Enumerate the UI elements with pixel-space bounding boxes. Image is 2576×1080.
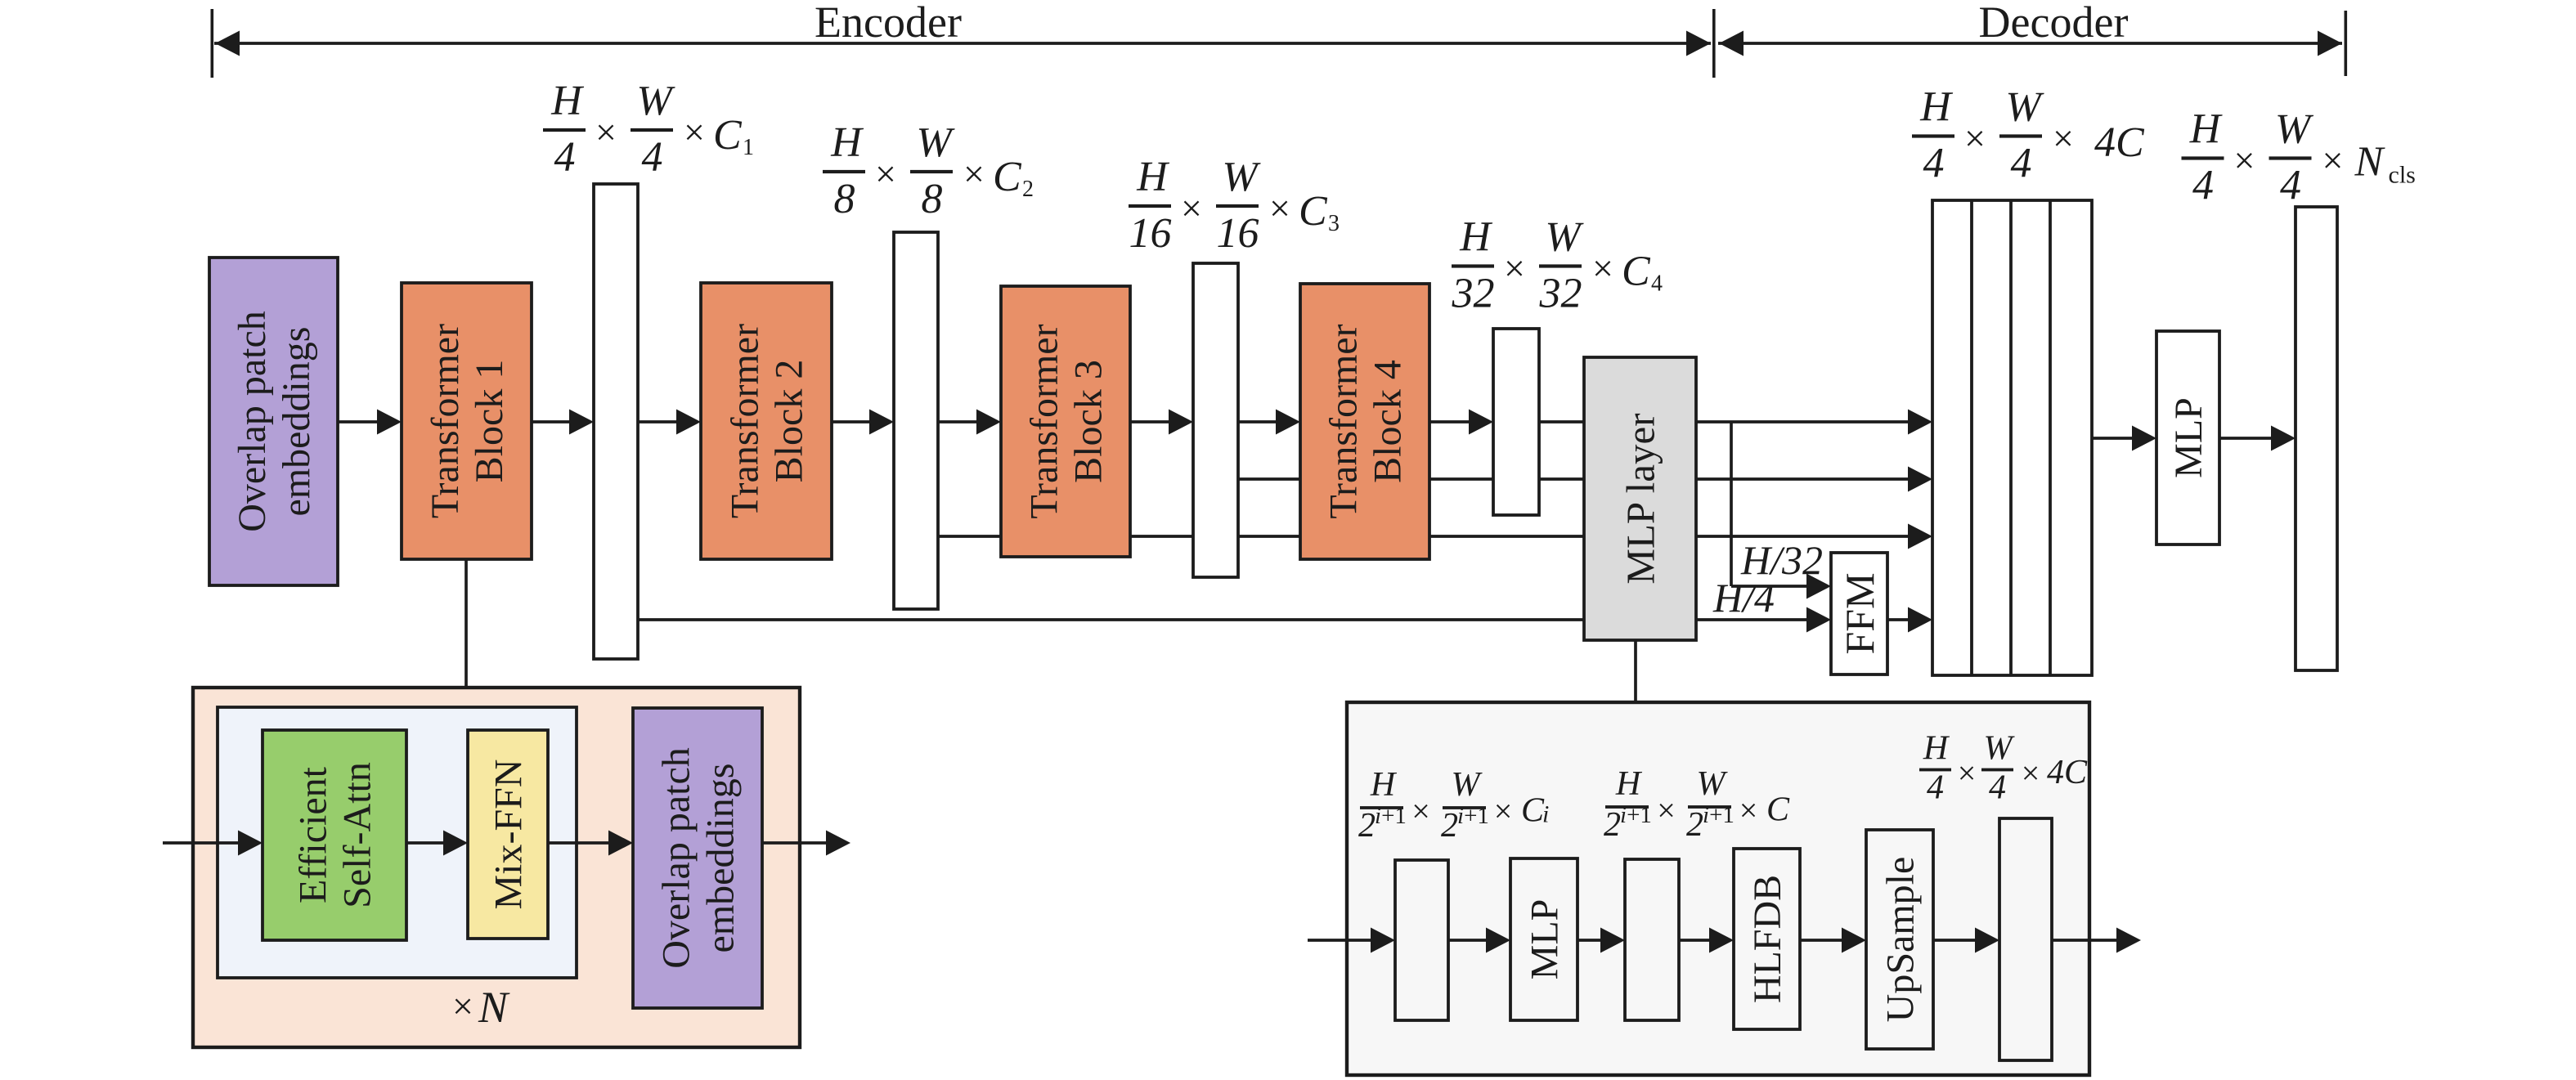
svg-text:W: W	[1222, 154, 1261, 200]
svg-text:H: H	[1923, 730, 1950, 768]
transformer block detail outer box	[193, 688, 800, 1047]
svg-text:H: H	[2189, 106, 2223, 153]
svg-text:2: 2	[1358, 807, 1376, 845]
svg-text:4: 4	[1651, 271, 1663, 297]
svg-text:Block 2: Block 2	[768, 360, 811, 483]
arrow MLP layer out3 to decoder stack	[1696, 524, 1932, 549]
box Overlap patch embeddings (detail)	[633, 708, 762, 1008]
svg-text:4: 4	[2280, 163, 2301, 209]
svg-text:×: ×	[1964, 118, 1986, 159]
arrow MLP to output slab	[2219, 426, 2296, 451]
svg-text:8: 8	[834, 176, 855, 222]
svg-text:H/4: H/4	[1712, 575, 1775, 621]
box Efficient Self-Attn	[263, 730, 406, 940]
arrow Block1 to feature slab1	[532, 410, 594, 435]
box Transformer Block 2	[701, 283, 832, 559]
svg-text:embeddings: embeddings	[275, 327, 318, 517]
svg-text:C: C	[1299, 188, 1328, 235]
svg-text:×: ×	[1739, 792, 1758, 829]
svg-text:H: H	[1370, 766, 1398, 804]
svg-text:N: N	[478, 983, 510, 1032]
svg-text:H: H	[1615, 765, 1643, 803]
svg-text:UpSample: UpSample	[1879, 857, 1923, 1023]
svg-text:1: 1	[743, 135, 754, 160]
feature slab 3	[1193, 263, 1238, 577]
feature slab 4	[1493, 329, 1539, 515]
arrow Mix-FFN to overlap patch embeddings	[548, 831, 633, 856]
svg-text:×: ×	[1181, 187, 1202, 229]
svg-text:×: ×	[684, 111, 705, 153]
svg-text:×: ×	[1504, 248, 1525, 289]
svg-text:W: W	[1452, 766, 1483, 804]
decoder span double arrow with end tick	[1718, 11, 2347, 76]
svg-text:W: W	[1697, 765, 1729, 803]
wire slab3 skip to MLP layer	[1238, 477, 1584, 481]
feature slab 1	[594, 184, 638, 659]
svg-text:×: ×	[452, 985, 473, 1027]
wire MLP layer down to MLP-layer detail	[1634, 640, 1637, 704]
wire Block1 down to transformer-block detail	[464, 559, 468, 689]
svg-text:Transformer: Transformer	[724, 324, 767, 518]
arrow decoder stack to MLP	[2092, 426, 2156, 451]
arrow MLP layer out1 to decoder stack	[1696, 410, 1932, 435]
arrow Self-Attn to Mix-FFN	[406, 831, 468, 856]
arrow out of transformer block detail	[762, 831, 850, 856]
svg-text:MLP: MLP	[2167, 397, 2210, 478]
arrow FFM to decoder stack	[1887, 607, 1932, 633]
arrow Block3 to feature slab3	[1130, 410, 1193, 435]
svg-text:×: ×	[595, 111, 617, 153]
svg-text:MLP: MLP	[1524, 899, 1567, 980]
svg-text:2: 2	[1686, 806, 1703, 844]
wire slab1 H/4 skip to MLP layer	[638, 618, 1584, 621]
svg-text:Transformer: Transformer	[424, 324, 467, 518]
svg-text:H: H	[1919, 84, 1953, 131]
svg-text:W: W	[636, 78, 675, 124]
svg-text:MLP layer: MLP layer	[1618, 413, 1663, 584]
svg-text:2: 2	[1604, 806, 1621, 844]
arrow out of MLP-layer detail	[2052, 928, 2141, 953]
svg-text:H: H	[830, 119, 864, 166]
svg-text:×: ×	[2022, 755, 2040, 791]
svg-text:Block 4: Block 4	[1367, 360, 1410, 483]
svg-text:4: 4	[2011, 141, 2032, 187]
svg-text:C: C	[1622, 249, 1651, 295]
svg-text:4: 4	[1927, 769, 1944, 807]
svg-text:×: ×	[1657, 792, 1676, 829]
svg-text:32: 32	[1539, 271, 1582, 317]
wire slab2 skip to MLP layer	[938, 535, 1584, 538]
svg-text:W: W	[2005, 84, 2044, 131]
svg-text:W: W	[916, 119, 955, 166]
svg-text:i+1: i+1	[1457, 803, 1489, 829]
svg-text:Decoder: Decoder	[1979, 0, 2129, 47]
encoder span double arrow with end ticks	[211, 9, 1716, 78]
svg-text:i+1: i+1	[1703, 802, 1735, 828]
MLP layer detail outer box	[1347, 702, 2089, 1075]
box decoder MLP	[2156, 331, 2219, 544]
svg-text:C: C	[1766, 791, 1790, 829]
svg-text:×: ×	[1269, 187, 1290, 229]
svg-text:W: W	[1545, 214, 1584, 261]
svg-text:×: ×	[1592, 248, 1613, 289]
svg-text:×: ×	[963, 153, 985, 195]
svg-text:4: 4	[642, 134, 663, 181]
box HLFDB	[1734, 849, 1800, 1029]
svg-text:C: C	[1521, 792, 1545, 830]
svg-text:4C: 4C	[2094, 119, 2145, 166]
arrow MLP to slabB	[1577, 928, 1625, 953]
svg-text:×: ×	[2322, 140, 2344, 181]
svg-text:4: 4	[554, 134, 576, 181]
arrow MLP layer out2 to decoder stack	[1696, 467, 1932, 492]
arrow slabA to MLP	[1448, 928, 1510, 953]
box Overlap patch embeddings	[209, 258, 338, 585]
svg-text:cls: cls	[2389, 162, 2416, 189]
svg-text:Overlap patch: Overlap patch	[231, 311, 274, 532]
detail slab C	[1999, 818, 2052, 1060]
arrow into MLP-layer detail	[1308, 928, 1395, 953]
svg-text:i: i	[1542, 801, 1549, 828]
svg-text:i+1: i+1	[1620, 802, 1652, 828]
box Mix-FFN	[468, 730, 548, 939]
svg-text:16: 16	[1217, 210, 1259, 257]
arrow HLFDB to UpSample	[1800, 928, 1866, 953]
svg-text:W: W	[2275, 106, 2314, 153]
svg-text:4C: 4C	[2047, 754, 2088, 791]
svg-text:H: H	[1459, 214, 1492, 261]
svg-text:Transformer: Transformer	[1023, 324, 1066, 518]
box Transformer Block 4	[1300, 284, 1429, 559]
box Transformer Block 3	[1001, 286, 1130, 557]
detail slab B	[1625, 859, 1679, 1020]
svg-text:W: W	[1984, 730, 2016, 768]
arrow H/4 into FFM	[1696, 607, 1831, 633]
svg-text:Transformer: Transformer	[1322, 324, 1366, 518]
svg-text:embeddings: embeddings	[699, 764, 743, 953]
svg-text:i+1: i+1	[1375, 803, 1407, 829]
arrow slab3 to Block4	[1238, 410, 1300, 435]
svg-text:Mix-FFN: Mix-FFN	[487, 759, 531, 909]
svg-text:8: 8	[922, 176, 943, 222]
svg-text:×: ×	[2053, 118, 2074, 159]
svg-text:3: 3	[1328, 211, 1340, 236]
arrow slab1 to Block2	[638, 410, 701, 435]
svg-text:16: 16	[1129, 210, 1172, 257]
svg-text:4: 4	[1923, 141, 1945, 187]
svg-text:Block 3: Block 3	[1067, 360, 1111, 483]
svg-text:×: ×	[2234, 140, 2255, 181]
wire H/32 branch down	[1730, 422, 1733, 586]
arrow slab2 to Block3	[938, 410, 1001, 435]
svg-text:H: H	[1136, 154, 1169, 200]
svg-text:FFM: FFM	[1837, 572, 1883, 654]
arrow Block2 to feature slab2	[832, 410, 894, 435]
transformer block detail inner box	[218, 707, 577, 978]
arrow UpSample to slabC	[1933, 928, 1999, 953]
arrow H/32 into FFM	[1731, 574, 1831, 599]
svg-text:H: H	[550, 78, 584, 124]
svg-text:×: ×	[875, 153, 896, 195]
output slab	[2296, 207, 2337, 670]
arrow into Efficient Self-Attn	[163, 831, 263, 856]
detail slab A	[1395, 860, 1448, 1020]
svg-text:2: 2	[1022, 177, 1034, 202]
decoder concatenated slabs	[1932, 200, 2092, 675]
svg-text:32: 32	[1452, 271, 1495, 317]
box FFM	[1831, 553, 1887, 674]
svg-text:×: ×	[1958, 755, 1977, 791]
svg-text:×: ×	[1411, 793, 1430, 830]
box Transformer Block 1	[402, 283, 532, 559]
wire slab4 to MLP layer	[1539, 420, 1584, 423]
box UpSample	[1866, 830, 1933, 1049]
svg-text:2: 2	[1441, 807, 1458, 845]
svg-text:HLFDB: HLFDB	[1746, 875, 1789, 1003]
svg-text:C: C	[713, 112, 743, 159]
svg-text:Efficient: Efficient	[292, 766, 335, 903]
box detail MLP	[1510, 858, 1577, 1020]
svg-text:4: 4	[2192, 163, 2214, 209]
svg-text:×: ×	[1494, 793, 1513, 830]
svg-text:4: 4	[1989, 769, 2006, 807]
arrow slabB to HLFDB	[1679, 928, 1734, 953]
svg-text:Block 1: Block 1	[468, 360, 511, 483]
feature slab 2	[894, 232, 938, 609]
svg-text:Overlap patch: Overlap patch	[655, 747, 698, 969]
svg-text:Encoder: Encoder	[815, 0, 962, 47]
svg-text:Self-Attn: Self-Attn	[336, 762, 379, 908]
svg-text:N: N	[2354, 139, 2386, 186]
box MLP layer	[1584, 357, 1696, 640]
svg-text:C: C	[993, 154, 1022, 200]
arrow overlap-patch to Transformer Block 1	[338, 410, 402, 435]
arrow Block4 to feature slab4	[1429, 410, 1493, 435]
